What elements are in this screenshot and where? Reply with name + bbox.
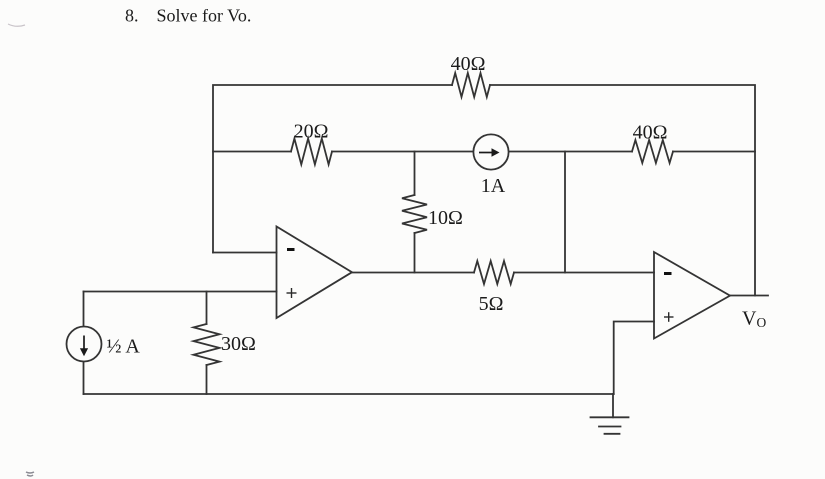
wire 30ohm branch lower bbox=[206, 365, 208, 394]
svg-text:Solve for Vo.: Solve for Vo. bbox=[157, 6, 252, 26]
scan artifact bottom-left bbox=[26, 472, 34, 476]
current source I2 arrow bbox=[80, 336, 88, 357]
resistor R 20ohm zigzag bbox=[291, 139, 332, 165]
wire opamp1 minus input bbox=[213, 252, 277, 254]
wire opamp1 output row left bbox=[352, 272, 474, 274]
op-amp U2 plus sign bbox=[664, 312, 674, 322]
wire left source branch bbox=[83, 292, 85, 395]
op-amp U1 plus sign bbox=[287, 288, 297, 298]
wire opamp1 plus input bbox=[84, 291, 277, 293]
op-amp U1 minus sign bbox=[287, 248, 295, 251]
wire opamp2 output Vo bbox=[730, 295, 768, 297]
svg-text:½ A: ½ A bbox=[107, 336, 141, 358]
resistor R 10ohm vertical zigzag bbox=[402, 195, 427, 233]
ground bar1 bbox=[591, 416, 629, 418]
wire bottom row bbox=[84, 393, 614, 395]
wire 30ohm branch upper bbox=[206, 292, 208, 325]
svg-text:5Ω: 5Ω bbox=[479, 293, 504, 315]
op-amp U2 triangle bbox=[654, 252, 730, 339]
svg-text:1A: 1A bbox=[481, 175, 506, 197]
svg-text:20Ω: 20Ω bbox=[294, 121, 329, 143]
wire top-left vertical (node at 20-ohm row to top row) bbox=[213, 85, 452, 253]
ground stub bbox=[612, 394, 614, 417]
resistor R 30ohm vertical zigzag bbox=[194, 324, 220, 365]
wire 10ohm branch upper bbox=[414, 152, 416, 196]
wire row2 right segment bbox=[673, 151, 755, 153]
svg-text:30Ω: 30Ω bbox=[221, 333, 256, 355]
wire top row right of 40ohm bbox=[490, 85, 755, 296]
wire row2 left segment bbox=[213, 151, 291, 153]
wire opamp2 plus input bbox=[614, 322, 654, 395]
wire 10ohm branch lower bbox=[414, 233, 416, 273]
svg-text:40Ω: 40Ω bbox=[451, 53, 486, 75]
current source I1 1A circle bbox=[473, 134, 508, 169]
resistor R 5ohm zigzag bbox=[474, 261, 514, 284]
scan artifact top-left bbox=[8, 24, 25, 26]
wire output row right to opamp2 minus bbox=[514, 272, 654, 274]
svg-text:8.: 8. bbox=[125, 6, 139, 26]
ground bar2 bbox=[599, 426, 621, 428]
current source I2 half-amp circle bbox=[67, 327, 102, 362]
op-amp U1 triangle bbox=[277, 227, 353, 319]
resistor R-right 40ohm zigzag bbox=[632, 140, 673, 163]
ground bar3 bbox=[605, 433, 620, 435]
svg-text:40Ω: 40Ω bbox=[633, 122, 668, 144]
current source I1 arrow bbox=[479, 148, 500, 156]
wire junction vertical x=565 bbox=[564, 152, 566, 273]
resistor R-top 40ohm zigzag bbox=[452, 73, 490, 97]
wire row2 middle segment bbox=[332, 151, 632, 153]
svg-text:10Ω: 10Ω bbox=[428, 207, 463, 229]
op-amp U2 minus sign bbox=[664, 272, 672, 275]
